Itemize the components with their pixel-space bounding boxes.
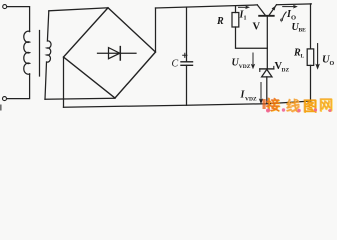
svg-text:图: 图 (303, 99, 317, 115)
svg-text:L: L (301, 54, 305, 60)
svg-text:O: O (291, 15, 296, 22)
svg-text:DZ: DZ (282, 67, 290, 73)
svg-text:VDZ: VDZ (239, 64, 251, 70)
svg-text:O: O (330, 61, 335, 67)
svg-text:R: R (216, 16, 224, 27)
svg-text:V: V (253, 22, 261, 33)
svg-text:线: 线 (286, 98, 300, 115)
svg-text:BE: BE (299, 28, 307, 34)
svg-text:C: C (172, 59, 179, 70)
svg-text:VDZ: VDZ (245, 97, 257, 103)
svg-text:1: 1 (244, 16, 247, 22)
